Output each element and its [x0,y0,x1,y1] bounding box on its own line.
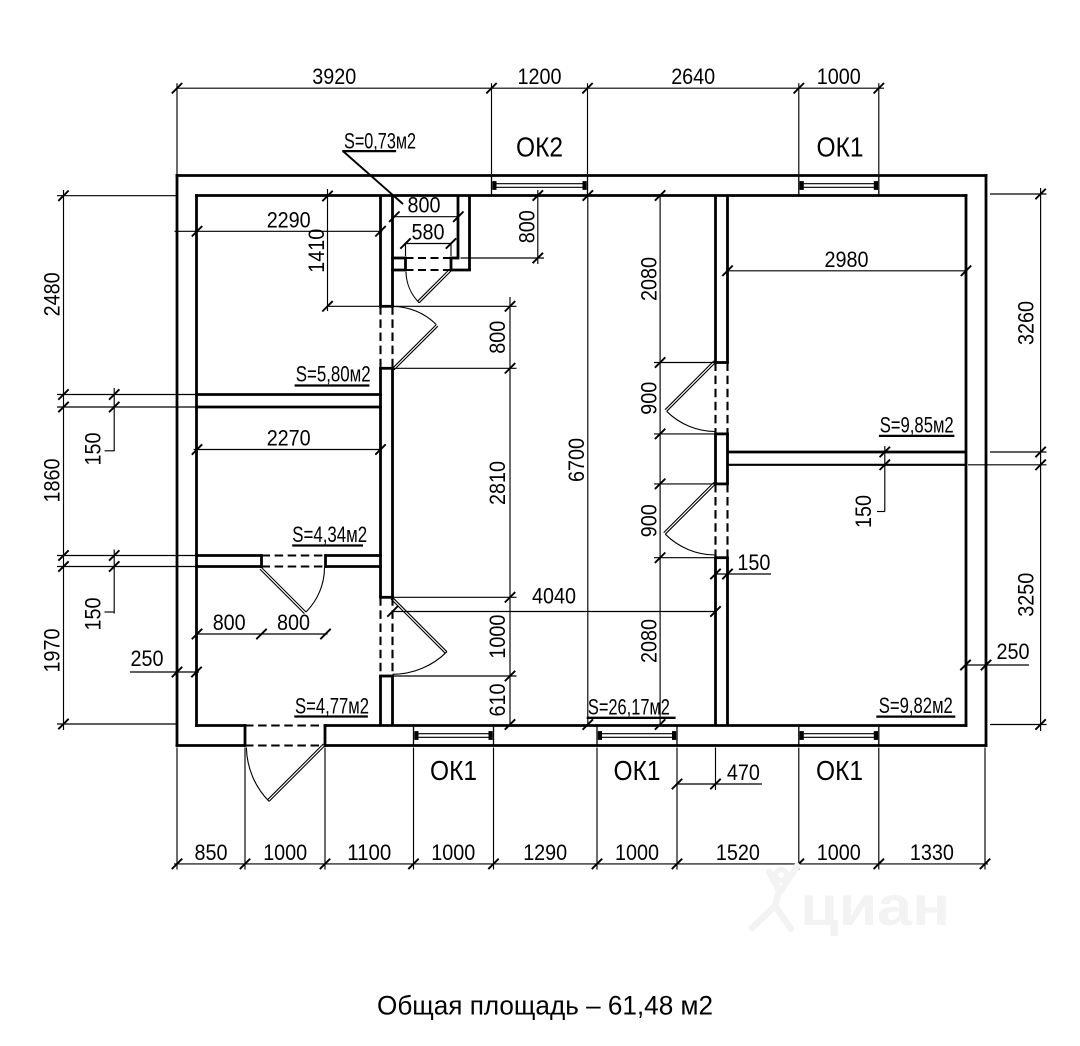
wall central right line segments [726,196,729,726]
svg-text:1000: 1000 [485,615,510,659]
door V1 upper 800 with swing arc [381,306,438,370]
label room S=9,82m2 [876,693,955,718]
svg-text:S=9,82м2: S=9,82м2 [879,693,953,718]
svg-text:циан: циан [800,874,950,937]
dimension chain left 2480 1860 1970 [40,190,197,730]
dimension 2270 room S=4,34 width [192,426,386,455]
svg-text:1000: 1000 [817,64,861,89]
wall exterior top inner line [195,194,967,197]
svg-text:1000: 1000 [817,840,861,865]
label OK1 bottom-right window [816,755,863,786]
svg-text:800: 800 [514,210,539,243]
svg-text:150: 150 [81,433,106,466]
wall exterior left outer line [176,174,179,747]
wall exterior bottom inner line left [195,724,245,727]
svg-text:150: 150 [851,495,876,528]
svg-text:ОК1: ОК1 [816,755,863,786]
svg-text:1520: 1520 [716,840,760,865]
label room S=4,77m2 [294,694,369,719]
dimension 800 closet width [389,193,463,222]
svg-text:610: 610 [485,684,510,717]
wall central door1 caps [714,363,729,434]
svg-text:Общая площадь – 61,48 м2: Общая площадь – 61,48 м2 [377,991,713,1021]
svg-text:S=0,73м2: S=0,73м2 [344,129,416,154]
wall exterior top outer line [176,174,988,177]
svg-text:150: 150 [737,550,770,575]
svg-text:1200: 1200 [518,64,562,89]
svg-text:900: 900 [637,504,662,537]
door in wall W2 with swing arc [260,556,326,614]
svg-text:2640: 2640 [671,64,715,89]
svg-text:S=26,17м2: S=26,17м2 [588,695,670,720]
svg-text:ОК1: ОК1 [614,755,661,786]
svg-text:2270: 2270 [267,426,311,451]
dimension chain top 3920 1200 2640 1000 [172,64,884,174]
dimension 800 800 room S=4,77 door [192,610,331,639]
wall closet bottom bottom line segments [391,269,471,272]
svg-text:150: 150 [81,598,106,631]
wall closet right vertical lines [458,196,470,271]
wall W2 door jamb caps [262,554,326,568]
svg-text:580: 580 [412,220,445,245]
door V1 lower 1000 with swing arc [381,597,447,676]
door closet with swing arc [406,258,452,303]
label room S=5,80m2 [295,362,371,387]
dimension 150 central wall thickness [710,550,771,579]
watermark cian logo [752,866,950,937]
wall W1 bottom line [195,406,382,409]
svg-text:800: 800 [485,321,510,354]
svg-text:ОК1: ОК1 [817,132,864,163]
dimension 2290 room S=5,80 width [175,207,386,236]
wall divider right rooms bottom line [728,464,967,466]
dimension column 800 2810 1000 610 V1 doors [394,297,517,730]
svg-text:ОК1: ОК1 [430,755,477,786]
window OK1 top-right wall [799,176,879,196]
svg-text:3920: 3920 [312,64,356,89]
dimension 4040 central room width [387,584,720,617]
dimension 800 closet vertical [461,190,545,264]
wall exterior bottom outer line left [176,744,245,747]
label room S=4,34m2 [292,522,367,547]
svg-text:1000: 1000 [615,840,659,865]
wall W1 between rooms S=5,80 and S=4,34 top line [195,393,382,396]
label room S=9,85m2 [879,413,955,438]
dimension 470 window to wall [672,748,762,791]
wall exterior bottom outer line right [325,744,987,747]
svg-text:2980: 2980 [825,247,869,272]
dimension 150 wall W2 left [81,550,120,631]
svg-text:850: 850 [195,840,228,865]
svg-text:S=4,77м2: S=4,77м2 [295,694,369,719]
label room S=26,17m2 [587,695,676,720]
wall closet bottom top line segments [391,257,459,260]
svg-text:2480: 2480 [40,272,65,316]
svg-text:800: 800 [277,610,310,635]
label OK1 top-right window [817,132,864,163]
svg-text:1970: 1970 [40,629,65,673]
wall exterior left inner line [195,194,198,727]
dimension 250 right wall thickness [960,639,1029,670]
dimension 250 left wall thickness [130,646,202,677]
dimension 1410 room1 to V1 door [304,189,379,312]
svg-text:4040: 4040 [532,584,576,609]
svg-text:3250: 3250 [1014,573,1039,617]
svg-text:2080: 2080 [637,257,662,301]
dimension 2980 right rooms width [722,247,971,276]
wall closet door jamb caps [406,257,452,272]
label OK1 bottom-left window [430,755,477,786]
window OK1 bottom-left [414,726,494,746]
svg-text:800: 800 [408,193,441,218]
wall exterior bottom inner line right [325,724,967,727]
svg-text:1290: 1290 [523,840,567,865]
svg-text:1860: 1860 [40,459,65,503]
svg-text:800: 800 [213,610,246,635]
svg-text:1000: 1000 [263,840,307,865]
svg-text:ОК2: ОК2 [516,132,563,163]
svg-text:3260: 3260 [1014,301,1039,345]
window OK1 bottom-middle [597,726,677,746]
svg-text:S=5,80м2: S=5,80м2 [296,362,371,387]
window OK1 bottom-right [799,726,879,746]
svg-text:S=9,85м2: S=9,85м2 [880,413,954,438]
caption total area [377,991,713,1021]
svg-text:250: 250 [997,639,1030,664]
wall central left line segments [714,196,717,726]
dimension column 2080 900 900 2080 central wall doors [637,190,714,729]
door entry in bottom wall with swing arc [245,724,325,801]
wall V1 right line segments [391,196,394,726]
label room S=0,73m2 with leader [342,129,416,205]
label OK1 bottom-middle window [614,755,661,786]
label OK2 top window [516,132,563,163]
svg-text:2080: 2080 [637,619,662,663]
svg-text:900: 900 [637,382,662,415]
svg-text:1330: 1330 [910,840,954,865]
wall exterior right inner line [965,194,968,727]
svg-text:2810: 2810 [485,461,510,505]
wall W2 between rooms S=4,34 and S=4,77 top line segments [195,554,382,557]
dimension 6700 interior height [564,190,593,729]
wall W2 bottom line segments [195,565,382,568]
wall divider right rooms top line [728,451,967,454]
svg-text:1100: 1100 [347,840,391,865]
wall exterior right outer line [985,174,988,747]
dimension chain bottom 850 1000 1100 1000 1290 1000 1520 1000 1330 [172,748,990,870]
door central wall upper with swing arc [665,361,727,434]
svg-text:2290: 2290 [267,207,311,232]
dimension 150 divider wall right [851,446,890,528]
wall V1 door1 caps [379,306,394,368]
svg-text:S=4,34м2: S=4,34м2 [292,522,367,547]
dimension chain right 3260 3250 [968,188,1047,731]
dimension 580 closet door [400,220,456,257]
svg-text:6700: 6700 [564,438,589,482]
window OK2 top wall [492,176,588,196]
door central wall lower with swing arc [664,482,728,557]
wall V1 door2 caps [379,597,394,676]
wall central door2 caps [714,484,729,558]
svg-text:1000: 1000 [431,840,475,865]
svg-text:1410: 1410 [304,229,329,273]
svg-text:470: 470 [727,760,760,785]
dimension 150 wall W1 left [81,388,120,466]
svg-text:250: 250 [131,646,164,671]
wall V1 left line segments [379,196,382,726]
